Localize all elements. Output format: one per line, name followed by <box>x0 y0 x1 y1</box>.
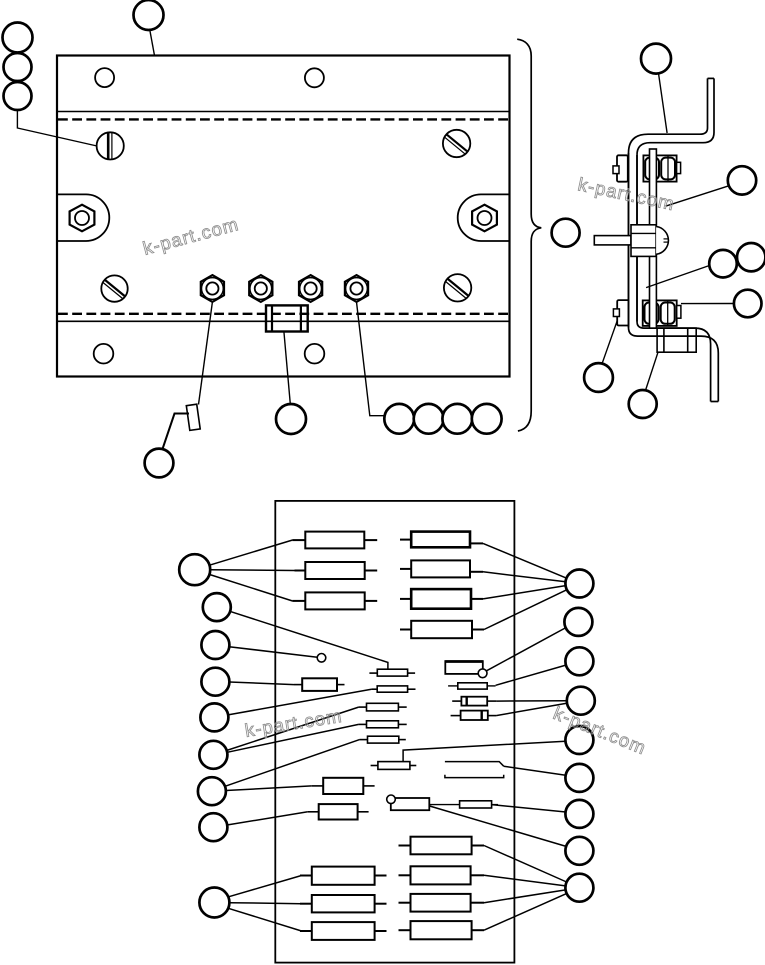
svg-text:k-part.com: k-part.com <box>141 213 241 259</box>
svg-text:k-part.com: k-part.com <box>243 705 343 741</box>
svg-text:k-part.com: k-part.com <box>551 702 650 758</box>
